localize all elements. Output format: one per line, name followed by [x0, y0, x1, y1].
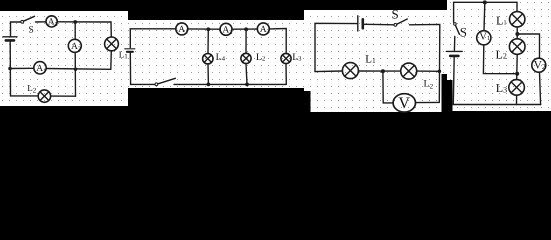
wire: voltmeter to right wire [416, 101, 440, 103]
paper panel 3 [304, 10, 447, 112]
switch S1 blade [24, 16, 35, 21]
wire: branch 1 vertical lower [207, 64, 209, 85]
lamp L3 [509, 80, 525, 96]
ammeter A1 [34, 62, 46, 74]
wire: bottom wire to right corner [174, 83, 286, 85]
wire: top to ammeter A3 [36, 21, 47, 23]
ammeter A3 [46, 16, 57, 27]
wire: A3 to right corner down to lamp L3 [269, 29, 286, 54]
node: junction dot 2 [244, 27, 248, 31]
wire: battery to switch [364, 23, 394, 26]
node: junction dot 1 [206, 27, 210, 31]
wire: branch 2 vertical upper [245, 29, 247, 53]
battery B2 long plate [125, 48, 135, 50]
wire: switch to battery [453, 37, 455, 51]
lamp L2 [241, 53, 251, 63]
wire: V2 bottom leg [540, 72, 541, 104]
battery B3 short plate [361, 19, 364, 28]
lamp L2 [38, 90, 50, 102]
wire: A1 to junction and on to L1 corner [46, 68, 111, 71]
voltmeter V2 [532, 58, 546, 72]
switch S2 blade [158, 78, 175, 84]
lamp L1 [105, 37, 119, 51]
wire: A2 to A3 [232, 28, 258, 30]
battery B4 short plate [450, 55, 458, 58]
wire: A3 to right corner [57, 21, 111, 23]
lamp L3 [281, 53, 291, 63]
node: bottom junction 2 [245, 83, 249, 87]
svg-text:S: S [29, 26, 34, 36]
wire: A1 to A2 [188, 28, 221, 30]
node: L2-L3 junction [515, 72, 519, 76]
ammeter A1 [176, 23, 188, 35]
ammeter A2 [68, 39, 81, 52]
node: top junction [483, 0, 487, 4]
battery B1 long plate [3, 36, 17, 38]
wire: L1 to L2 [516, 27, 518, 39]
wire: V1 down and right to node [483, 45, 517, 74]
voltmeter V1 [477, 31, 491, 45]
wire: battery down and bottom wire [453, 57, 540, 105]
wire: L2 to L3 [516, 54, 519, 79]
svg-text:L1: L1 [365, 53, 376, 65]
node: bottom junction 1 [207, 83, 211, 87]
wire: L1 down to horizontal [110, 51, 113, 70]
paper panel 1 [0, 11, 128, 106]
node: L1-L2 junction [515, 32, 519, 36]
ammeter A2 [220, 23, 232, 35]
battery B2 short plate [127, 51, 133, 53]
wire: A1 branch left [11, 67, 34, 69]
node: cross junction [74, 68, 77, 71]
voltmeter V [393, 94, 415, 112]
node: left junction at A1 wire [8, 67, 12, 71]
paper panel 2 [128, 20, 304, 88]
wire: middle wire left [315, 70, 342, 73]
lamp L2 [401, 63, 417, 79]
node: right junction [438, 70, 442, 74]
switch S4 circle [454, 23, 457, 26]
paper panel 4 [447, 0, 551, 111]
node: junction for voltmeter [381, 69, 385, 73]
wire: A2 down through junction to bottom wire [74, 52, 76, 96]
node: top junction [73, 20, 77, 24]
switch S1 circle [21, 20, 24, 23]
wire: L3 down to bottom right corner [285, 64, 287, 85]
wire: left wire and top to battery [315, 23, 357, 71]
wire: L2 to right wire [417, 70, 440, 72]
switch S4 blade [456, 26, 460, 35]
switch S3 circle [394, 24, 397, 27]
wire: branch 2 vertical lower [246, 64, 247, 85]
switch S2 circle [155, 83, 158, 86]
wire: V2 top branch [517, 34, 539, 58]
wire: L1 to L2 [358, 70, 400, 72]
wire: branch 1 vertical upper [207, 29, 209, 53]
wire: top wire [454, 2, 517, 22]
svg-text:V2: V2 [534, 60, 546, 72]
battery B3 long plate [357, 16, 359, 31]
battery B1 short plate [6, 39, 14, 42]
battery B4 long plate [446, 50, 462, 52]
lamp L1 [510, 12, 525, 27]
wire: voltmeter branch left [383, 71, 393, 103]
wire: top left from switch to corner [11, 22, 21, 36]
wire: L2 to A2 vertical [51, 95, 76, 97]
wire: battery down left side to bottom [10, 42, 38, 96]
wire: A2 vertical branch [74, 22, 76, 39]
svg-text:S: S [392, 7, 399, 22]
svg-text:V: V [398, 95, 410, 112]
lamp L2 [509, 39, 525, 55]
wire: L3 to bottom wire [516, 95, 518, 104]
wire: right wire down to lamp L1 [110, 22, 112, 37]
wire: V1 branch vertical [483, 2, 486, 30]
lamp L1 [342, 63, 358, 79]
ammeter A3 [257, 23, 269, 35]
wire: top wire left segment [130, 29, 176, 48]
lamp L4 [203, 54, 213, 64]
switch S3 blade [397, 19, 408, 24]
svg-text:S: S [460, 25, 467, 40]
wire: switch to right corner [410, 24, 440, 102]
wire: battery down to bottom left corner [130, 52, 155, 84]
